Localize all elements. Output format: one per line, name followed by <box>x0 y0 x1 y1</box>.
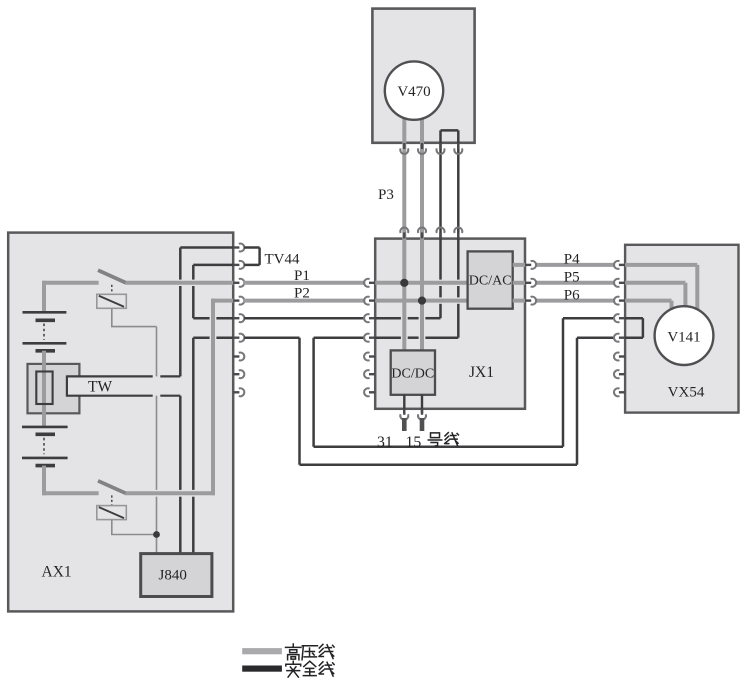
wire: gray through fuse TW <box>42 351 46 427</box>
legend label 高压线 <box>286 644 301 660</box>
battery B2 <box>22 426 68 429</box>
battery B1 <box>23 311 67 314</box>
wire: 15 line from DC/DC <box>421 395 423 413</box>
svg-text:TW: TW <box>88 379 112 396</box>
relay coil (lower) <box>97 506 127 520</box>
svg-text:AX1: AX1 <box>42 564 72 581</box>
interlock staple inside VX54 <box>625 317 643 320</box>
wire: gray P2 row inside JX1 to DC/AC <box>375 299 469 303</box>
svg-text:VX54: VX54 <box>668 385 705 401</box>
interlock jumper TV44 <box>244 246 259 249</box>
wire P5 (gray) <box>513 281 525 285</box>
wire: thin from lower coil to junction <box>111 520 113 535</box>
svg-text:V141: V141 <box>667 330 700 346</box>
converter DC/AC <box>468 251 513 308</box>
wire P4 (gray) <box>513 263 525 267</box>
svg-text:DC/DC: DC/DC <box>391 367 434 382</box>
legend high-voltage swatch <box>242 648 282 654</box>
terminal pins below JX1 <box>403 409 405 415</box>
wire: gray P1 row inside AX1 through upper switch <box>42 281 99 285</box>
junction dot P1 <box>400 279 408 287</box>
junction dot control/coil <box>153 531 160 538</box>
legend safety swatch <box>242 666 282 672</box>
wire P1 (gray) <box>243 281 365 285</box>
wire: gray P5 inside VX54 <box>625 281 685 285</box>
battery box AX1 <box>8 233 233 612</box>
pins JX1 top edge <box>403 232 405 238</box>
wire row R6 from AX1 (wire C start) <box>244 336 299 339</box>
pins AX1 right edge <box>233 246 239 248</box>
wire: thin from upper coil to control column <box>111 308 113 326</box>
wire: 31 line from DC/DC <box>403 395 405 413</box>
wire P2 (gray) <box>243 299 365 303</box>
wire: gray P2 row inside AX1 <box>211 299 233 303</box>
svg-text:P2: P2 <box>294 286 310 302</box>
control unit J840 <box>141 554 212 597</box>
svg-text:P3: P3 <box>378 187 394 203</box>
wire B routing to VX54 <box>312 338 315 447</box>
compressor circle V141 <box>655 306 714 365</box>
wire row R5 interlock to JX1 <box>244 317 364 320</box>
contactor switch K1 (upper) <box>98 270 126 282</box>
wire: thin control column to J840 <box>156 327 158 490</box>
wire: gray P6 inside VX54 <box>625 299 671 303</box>
converter DC/DC <box>391 350 435 394</box>
svg-text:P6: P6 <box>564 288 580 304</box>
svg-text:JX1: JX1 <box>469 364 494 381</box>
wire: motor interlock staple <box>439 130 442 279</box>
TW label box <box>67 376 180 395</box>
service plug TW outer box <box>28 364 80 413</box>
inverter box JX1 <box>375 239 525 409</box>
wire: row R6 to J840 <box>193 336 209 339</box>
svg-text:15: 15 <box>406 434 422 451</box>
wire: interlock row R2 to row R5 <box>193 264 233 267</box>
wire: gray from P1 row to battery top <box>42 281 46 313</box>
wire: gray motor phases V470 to JX1 <box>402 112 406 350</box>
fuse TW <box>36 372 52 405</box>
svg-text:DC/AC: DC/AC <box>469 274 512 289</box>
pins JX1 right edge <box>525 264 531 266</box>
wire row R6 into JX1 (wire B start) <box>314 336 365 339</box>
svg-text:TV44: TV44 <box>265 252 300 268</box>
svg-text:P1: P1 <box>294 268 310 284</box>
svg-text:J840: J840 <box>159 568 187 584</box>
compressor box VX54 <box>625 245 738 413</box>
wire: gray battery bottom to lower switch and P2 column <box>42 466 46 496</box>
wire P6 (gray) <box>513 299 525 303</box>
wire: gray P4 inside VX54 <box>625 263 697 267</box>
legend label 安全线 <box>286 661 301 677</box>
wire: gray P1 row inside JX1 to DC/AC <box>375 281 469 285</box>
contactor switch K2 (lower) <box>98 481 126 493</box>
wire: TW bottom to J840 <box>179 396 182 490</box>
pins VX54 left edge <box>619 264 625 266</box>
wire: interlock row R6 inside JX1 <box>375 336 401 339</box>
relay coil (upper) <box>97 294 127 308</box>
wire: interlock row R5 inside JX1 <box>375 317 401 320</box>
svg-text:P5: P5 <box>564 270 580 286</box>
motor box (V470 housing) <box>372 9 474 143</box>
pins V470 bottom edge <box>403 143 405 149</box>
pins JX1 left edge <box>369 282 375 284</box>
svg-text:31: 31 <box>377 434 393 451</box>
motor circle V470 <box>385 61 443 119</box>
wire: interlock row R1 to TW top <box>180 246 233 249</box>
wire C routing to VX54 <box>298 338 301 465</box>
svg-text:V470: V470 <box>397 84 430 100</box>
svg-text:P4: P4 <box>564 252 580 268</box>
junction dot P2 <box>418 297 426 305</box>
